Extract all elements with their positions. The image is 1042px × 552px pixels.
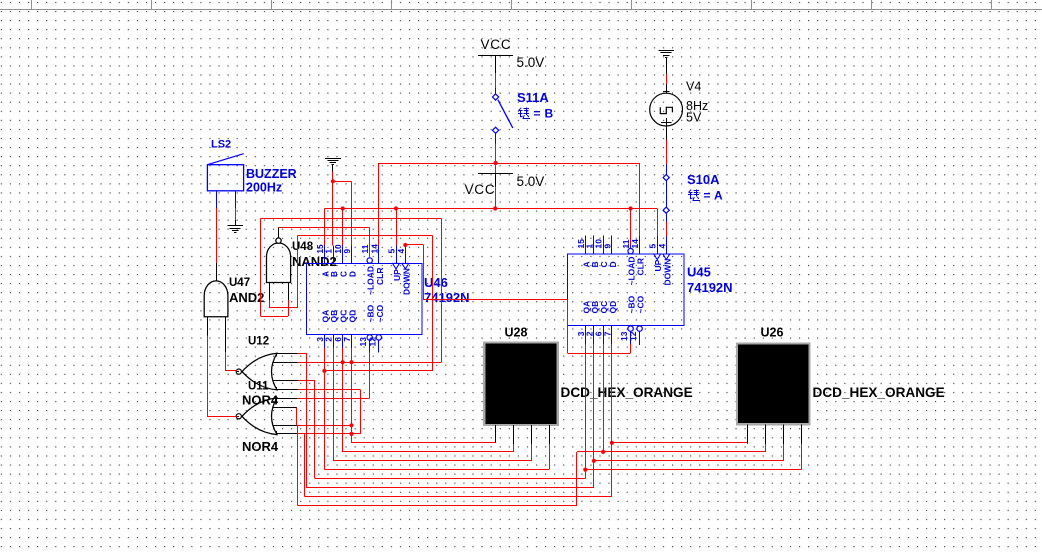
wire U11 in4 line [298,433,361,435]
wire return QB [307,487,594,489]
pin U46.CLR [369,244,385,285]
junction rail at U46 UP [394,206,398,210]
pin U46.QD [342,310,358,348]
junction U45 QA [583,468,587,472]
svg-text:5.0V: 5.0V [517,55,545,70]
wire NAND in1 across [270,307,297,309]
wire U46 C drop [342,209,344,246]
svg-text:A: A [321,271,330,277]
svg-text:DOWN: DOWN [662,259,672,286]
pin U46.UP [387,245,403,281]
wire bus to U28 pin3 [334,444,532,461]
junction U46 QA tap [322,369,326,373]
wire ground to V4 [663,74,669,93]
wire U11 in3 line [297,425,352,427]
svg-text:7: 7 [602,331,612,336]
wire S11A net to U45 CLR corner [496,163,640,165]
pin U45.CLR [630,236,646,276]
svg-text:5V: 5V [686,111,702,125]
wire QD dot2 [349,432,353,436]
pin U45.B [584,236,600,268]
wire U45 QC down [603,344,605,452]
label VCC1 value 5.0V [517,55,545,70]
pin U47.in1 [207,317,209,336]
svg-text:NOR4: NOR4 [242,439,279,454]
pin U48.in1 [269,283,271,300]
buzzer LS2 symbol [207,154,243,191]
svg-text:AND2: AND2 [229,290,264,305]
svg-text:12: 12 [367,337,377,347]
label U11 NOR4 [242,439,279,454]
chip U45 box [568,254,685,326]
wire riser U11 in4 [304,434,306,496]
wire U12 in1 red stub [298,353,307,355]
svg-text:U45: U45 [687,265,711,280]
wire U11 out [207,416,237,418]
label U28 [505,326,528,340]
wire U46 QB down [333,348,335,461]
svg-text:~CO: ~CO [636,295,646,313]
wire U46 QC down [342,348,344,452]
junction rail at U46 C [341,206,345,210]
wire QC left drop [576,452,578,506]
pin U26.2 [765,424,767,444]
junction VCC2 rail [493,206,497,210]
wire riser U12 in4 [314,381,316,479]
svg-text:9: 9 [602,244,612,249]
wire U48 out to U46 ~LOAD [279,227,370,257]
svg-text:74192N: 74192N [687,280,733,295]
svg-text:QD: QD [348,310,358,323]
wire NAND in1 right [297,235,432,237]
wire NAND in1 drop right [432,236,434,371]
svg-text:14: 14 [369,244,379,254]
gate U48 NAND2 [267,238,291,283]
svg-text:DCD_HEX_ORANGE: DCD_HEX_ORANGE [813,385,945,400]
pin U45.QC [594,301,610,344]
svg-text:DCD_HEX_ORANGE: DCD_HEX_ORANGE [561,385,693,400]
wire V4 to S10A [666,126,668,164]
label U46 [424,275,448,290]
svg-text:NAND2: NAND2 [292,254,337,269]
wire U11 out riser [207,335,209,416]
pin U12.in3 [273,380,298,382]
pin U45.~CO [628,295,646,345]
svg-text:NOR4: NOR4 [242,393,279,408]
label U46 74192N [424,290,470,305]
pin U46.DOWN [396,245,412,295]
wire S11A to junction [495,143,497,163]
pin U11.in1 [277,398,297,401]
pin U46.~LOAD [360,244,376,295]
junction U46 DOWN [403,243,407,247]
wire U12 in2 line [298,362,442,364]
label U12 [248,336,269,348]
label VCC2 [465,182,496,197]
label U28 DCD_HEX_ORANGE [561,385,693,400]
svg-text:U12: U12 [248,336,269,348]
svg-text:B: B [330,271,339,277]
ground G1 symbol [658,51,674,75]
wire VCC1 to S11A [495,73,497,94]
pin U12.in4 [277,387,298,390]
wire bus to U26 pin4 [585,444,801,470]
svg-text:10: 10 [334,244,343,254]
pin U28.4 [549,425,551,444]
wire return QA [315,478,585,480]
clock source V4 [650,93,683,126]
wire cascade drop [423,245,425,299]
label U45 [687,265,711,280]
wire riser U12 in1 [306,353,308,488]
label U47 AND2 [229,290,264,305]
wire VCC rail [324,208,657,210]
svg-text:4: 4 [396,249,406,254]
pin LS2.2 [235,191,237,208]
wire NAND in2 loop left [260,218,262,316]
label U48 NAND2 [292,254,337,269]
svg-text:LS2: LS2 [211,139,231,151]
wire gnd net to U46 D [333,181,352,245]
svg-text:200Hz: 200Hz [246,181,282,195]
svg-text:7: 7 [342,337,352,342]
svg-text:A: A [714,189,723,203]
svg-text:1: 1 [325,249,334,254]
wire LS2.2 to ground [235,208,237,226]
label S11A key = B [518,107,553,121]
junction ground net [331,179,335,183]
junction S11A net [494,161,498,165]
power VCC2 symbol [478,174,513,187]
gate U12 NOR4 [236,353,277,390]
svg-text:C: C [340,271,349,277]
sheet top ruler line [0,0,1042,10]
wire NAND in1 down [269,300,271,308]
wire U46 DOWN right [405,244,423,246]
ground G3 symbol [227,226,243,233]
wire U45 ~BO drop [630,344,632,353]
pin U46.B [325,245,340,277]
wire NAND in2 loop bottom [260,316,288,318]
pin U45.A [576,236,592,268]
svg-text:V4: V4 [686,80,701,94]
svg-text:~CO: ~CO [375,304,385,322]
wire U12 out [225,370,237,372]
svg-text:D: D [608,261,618,267]
pin U12.out [237,371,239,373]
junction U45 QC [601,450,605,454]
label V4 volt [686,111,702,125]
pin LS2.1 [216,191,218,208]
wire cascade bottom [568,353,631,355]
wire U46 CLR drop [378,163,380,245]
display U28 [484,343,558,426]
pin U45.~BO [619,295,637,344]
wire bus to U28 pin2 [343,444,514,452]
wire U12 out riser [225,352,227,371]
wire U12 in4 red stub [298,380,315,382]
wire rail to U45 UP drop [657,209,659,237]
pin U45.~LOAD [621,239,637,285]
pin U45.DOWN [657,236,673,286]
svg-text:CLR: CLR [375,268,385,285]
svg-text:U47: U47 [229,277,250,289]
label V4 [686,80,701,94]
wire U46 UP drop [396,209,398,246]
svg-text:D: D [349,271,358,277]
wire U45 QD down [611,344,613,496]
svg-text:U11: U11 [248,381,269,393]
junction U45 QD [610,441,614,445]
pin U11.in3 [273,425,298,427]
svg-text:S11A: S11A [517,90,549,105]
wire bus to U26 pin3 [594,444,784,461]
pin U46.QA [315,310,331,348]
pin U45.QD [602,301,618,344]
wire QA tap line [324,370,432,372]
pin U28.1 [495,425,497,443]
svg-text:=: = [534,107,541,121]
pin U45.C [594,236,610,268]
pin U46.D [343,245,358,277]
svg-text:QD: QD [608,301,618,314]
pin U28.2 [513,425,515,444]
svg-text:VCC: VCC [465,182,496,197]
svg-text:2: 2 [324,337,334,342]
wire bus to U26 pin1 [612,443,748,444]
pin U11.out [237,416,239,418]
wire U46 QD down [351,348,353,443]
svg-text:QB: QB [329,310,339,323]
wire loop right drop [441,218,443,362]
chip U46 box [307,263,423,334]
label VCC1 [481,37,512,52]
wire bus to U26 pin2 [577,444,766,452]
svg-text:5.0V: 5.0V [517,174,545,189]
wire gnd net down to U46 B [332,181,334,245]
wire U45 QA down [585,344,587,479]
wire VCC2 to rail [495,186,497,208]
pin U12.in2 [273,362,298,364]
wire NAND in2 loop top [260,218,441,220]
pin U47.in2 [225,317,227,352]
svg-text:CLR: CLR [636,258,646,275]
junction rail at U45 ~LOAD [629,206,633,210]
svg-text:14: 14 [630,239,640,249]
wire U45 QB down [593,344,595,488]
wire rail to U45 ~LOAD drop [630,209,632,246]
svg-text:VCC: VCC [481,37,512,52]
pin U45.D [602,236,618,268]
label U45 74192N [687,280,733,295]
svg-text:U28: U28 [505,326,528,340]
pin U48.in2 [288,283,290,300]
svg-text:U48: U48 [292,241,314,253]
svg-text:BUZZER: BUZZER [246,167,297,181]
label S11A [517,90,549,105]
pin U28.3 [531,425,533,444]
wire QD dot1 [349,423,353,427]
pin U45.QA [576,301,592,344]
svg-text:U46: U46 [424,275,448,290]
pin U45.UP [648,236,664,272]
wire NAND in2 up [288,300,290,316]
label U26 DCD_HEX_ORANGE [813,385,945,400]
pin U26.3 [783,424,785,444]
junction U46 QD in2 [349,360,353,364]
wire bus to U28 pin1 [352,442,496,444]
power VCC1 symbol [478,56,513,74]
wire row5 drop [360,390,362,434]
pin U46.~BO [358,304,376,352]
svg-text:9: 9 [343,249,352,254]
svg-text:U26: U26 [761,326,784,340]
svg-text:S10A: S10A [687,172,720,187]
ground G2 symbol [325,159,341,172]
label 200Hz [246,181,282,195]
wire U46 ~BO drop [369,353,371,399]
svg-text:12: 12 [628,331,638,341]
label V4 freq [686,99,708,113]
label U47 [229,277,250,289]
wire LS2.1 to U47 out [216,208,218,281]
pin U46.~CO [367,304,385,352]
label U11 [248,381,269,393]
pin U46.C [334,244,349,277]
junction U46 QC in2 [341,360,345,364]
label S10A key = A [688,189,723,203]
wire ground to junction [332,172,334,182]
wire U45 CLR drop [639,163,641,236]
label U26 [761,326,784,340]
svg-text:15: 15 [316,244,325,254]
gate U47 AND2 [204,281,228,317]
wire return QC [298,505,577,507]
pin U46.A [316,244,331,277]
label LS2 [211,139,231,151]
pin U26.4 [801,424,803,444]
label VCC2 value 5.0V [517,174,545,189]
switch S11A [493,94,513,143]
wire junction to VCC2 [495,163,497,174]
pin U26.1 [747,424,749,444]
wire U11 in1 line [297,398,370,400]
wire NAND in1 up [297,236,299,308]
wire S10A to U45 DOWN [666,222,668,236]
wire riser U11 in3 [297,425,299,505]
wire S11A net to U46 CLR corner [379,163,496,165]
pin U46.QB [324,310,340,348]
gate U11 NOR4 [236,398,277,435]
svg-text:=: = [704,189,711,203]
wire U46 QA down [324,348,326,470]
label BUZZER [246,167,297,181]
label U48 [292,241,314,253]
pin U48.out [278,227,280,238]
wire U12 row5 line [298,389,361,391]
wire U46 A drop [324,209,326,246]
wire cascade down U45 edge [567,299,569,353]
pin U46.QC [333,310,349,348]
pin U45.QB [584,301,600,344]
svg-text:B: B [545,107,554,121]
pin U11.in4 [277,431,298,434]
svg-text:74192N: 74192N [424,290,470,305]
wire U11 in2 drop [296,408,298,426]
wire bus to U28 pin4 [324,444,549,470]
label U12 NOR4 [242,393,279,408]
wire cascade across [423,299,567,301]
svg-text:DOWN: DOWN [401,268,411,295]
wire return QD [305,496,612,498]
junction U45 QB [592,459,596,463]
label S10A [687,172,720,187]
switch S10A [663,164,669,222]
svg-text:4: 4 [657,244,667,249]
pin U11.in2 [273,407,297,409]
pin U12.in1 [277,353,298,356]
display U26 [737,344,810,425]
